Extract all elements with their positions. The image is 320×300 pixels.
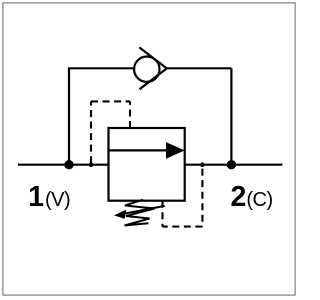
junction dot right bbox=[227, 160, 236, 169]
pilot junction dot right bbox=[200, 162, 205, 167]
check valve seat bbox=[139, 47, 167, 89]
adjustment arrow bbox=[114, 206, 165, 219]
pilot line right (dashed) vertical from port 2 bbox=[201, 169, 203, 227]
wire: bypass top right segment bbox=[167, 67, 232, 69]
wire: bypass left vertical bbox=[68, 68, 70, 164]
svg-text:1: 1 bbox=[28, 181, 44, 213]
svg-text:2: 2 bbox=[231, 181, 247, 213]
spring bbox=[125, 200, 155, 226]
pilot line left (dashed) drop to valve top bbox=[129, 101, 131, 128]
pilot line right (dashed) horizontal bbox=[163, 226, 203, 228]
pilot line left (dashed) horizontal bbox=[91, 100, 130, 102]
svg-text:(V): (V) bbox=[45, 189, 70, 211]
pilot line left (dashed) vertical from port 1 bbox=[90, 101, 92, 163]
wire: bypass right vertical bbox=[230, 68, 232, 164]
wire: main line right (valve body to port 2) bbox=[185, 164, 283, 166]
pilot line right (dashed) rise to valve bottom bbox=[161, 201, 163, 227]
junction dot left bbox=[64, 160, 73, 169]
wire: bypass top left segment bbox=[68, 67, 134, 69]
valve body (main envelope square) bbox=[109, 128, 185, 201]
svg-text:(C): (C) bbox=[246, 189, 272, 211]
flow arrow inside valve body bbox=[109, 142, 185, 159]
pilot junction dot left bbox=[89, 162, 94, 167]
check valve ball bbox=[134, 56, 159, 81]
wire: main line left (port 1 to valve body) bbox=[18, 164, 109, 166]
